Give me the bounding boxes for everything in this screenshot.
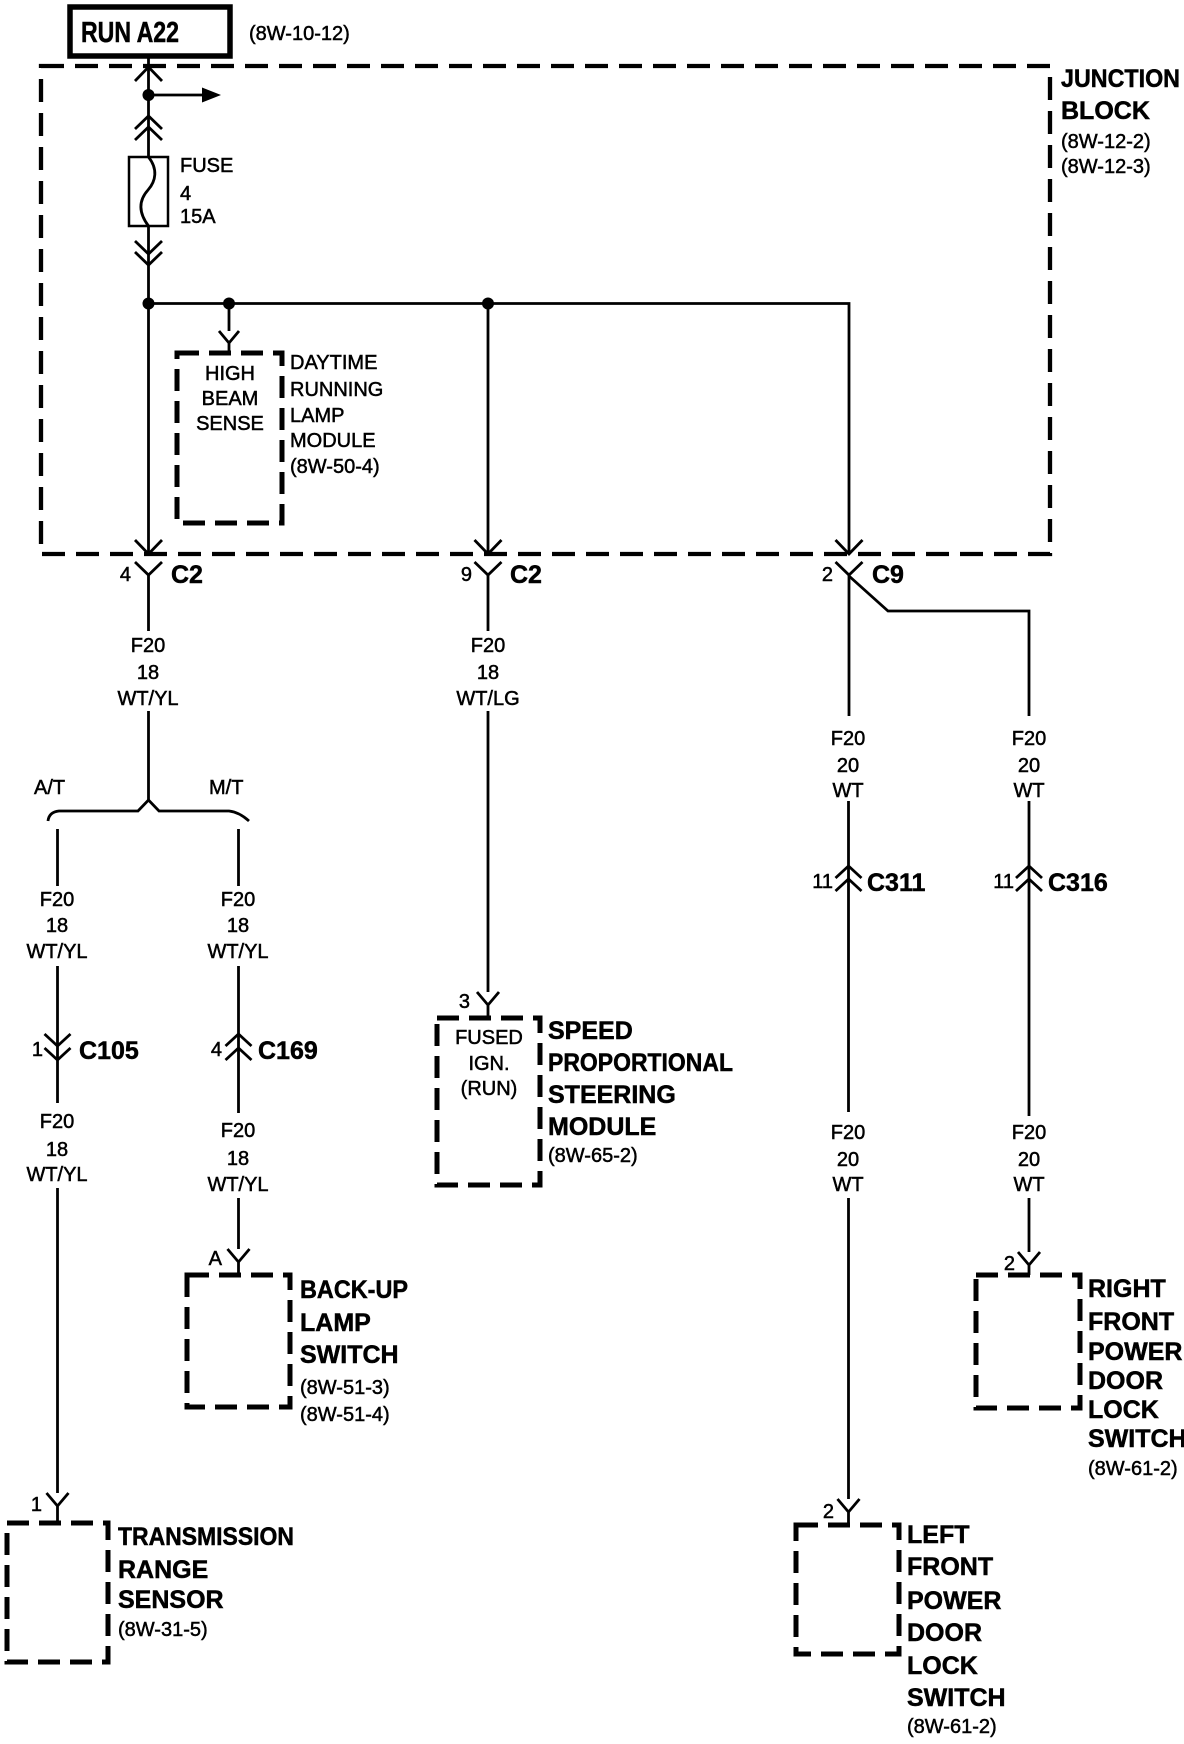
svg-text:WT: WT — [1013, 1174, 1044, 1196]
svg-text:SENSE: SENSE — [196, 413, 264, 435]
connector C2 pin 9 arrow and fork — [475, 540, 502, 554]
svg-text:PROPORTIONAL: PROPORTIONAL — [548, 1049, 733, 1077]
svg-text:18: 18 — [137, 662, 159, 684]
svg-text:(8W-61-2): (8W-61-2) — [907, 1716, 997, 1738]
svg-text:FUSE: FUSE — [180, 155, 233, 177]
switch RIGHT FRONT POWER DOOR LOCK SWITCH dashed box — [976, 1275, 1080, 1408]
svg-text:WT: WT — [832, 1174, 863, 1196]
svg-text:BEAM: BEAM — [202, 388, 259, 410]
wire brace split A/T M/T — [48, 800, 249, 821]
svg-text:(8W-61-2): (8W-61-2) — [1088, 1458, 1178, 1480]
svg-text:(8W-51-4): (8W-51-4) — [300, 1404, 390, 1426]
svg-text:POWER: POWER — [1088, 1338, 1182, 1366]
svg-text:20: 20 — [837, 755, 859, 777]
svg-text:FRONT: FRONT — [907, 1553, 993, 1581]
wire tap down to high beam sense — [228, 304, 231, 332]
connector RUN A22 feed box — [70, 7, 230, 56]
svg-text:BACK-UP: BACK-UP — [300, 1276, 408, 1304]
svg-text:2: 2 — [822, 564, 833, 586]
wire C2 pin4 to label — [147, 575, 150, 631]
svg-text:F20: F20 — [471, 635, 505, 657]
connector fork pin 1 into transmission range sensor — [47, 1493, 69, 1523]
svg-text:9: 9 — [461, 564, 472, 586]
wire bus down to C2 pin 4 — [147, 304, 150, 554]
svg-text:(RUN): (RUN) — [461, 1078, 518, 1100]
svg-text:HIGH: HIGH — [205, 363, 255, 385]
svg-text:SENSOR: SENSOR — [118, 1586, 224, 1614]
svg-text:LOCK: LOCK — [907, 1652, 978, 1680]
svg-text:18: 18 — [477, 662, 499, 684]
svg-text:BLOCK: BLOCK — [1061, 97, 1150, 125]
node dot at high beam sense tap — [223, 298, 235, 310]
svg-text:(8W-31-5): (8W-31-5) — [118, 1619, 208, 1641]
svg-text:JUNCTION: JUNCTION — [1061, 65, 1180, 93]
svg-text:SWITCH: SWITCH — [300, 1341, 399, 1369]
svg-text:WT/YL: WT/YL — [26, 1164, 87, 1186]
svg-text:(8W-12-2): (8W-12-2) — [1061, 131, 1151, 153]
connector fork pin A into back-up lamp switch — [228, 1249, 250, 1275]
sensor TRANSMISSION RANGE SENSOR dashed box — [7, 1523, 108, 1662]
svg-text:MODULE: MODULE — [290, 430, 376, 452]
svg-text:STEERING: STEERING — [548, 1081, 676, 1109]
switch LEFT FRONT POWER DOOR LOCK SWITCH dashed box — [796, 1525, 899, 1654]
svg-text:LAMP: LAMP — [300, 1309, 371, 1337]
svg-text:C311: C311 — [867, 869, 925, 897]
svg-text:F20: F20 — [131, 635, 165, 657]
svg-text:4: 4 — [120, 564, 131, 586]
node dot at fuse wire and bus — [143, 298, 155, 310]
svg-text:TRANSMISSION: TRANSMISSION — [118, 1523, 294, 1551]
svg-text:RUN A22: RUN A22 — [81, 17, 179, 49]
svg-text:C316: C316 — [1048, 869, 1108, 897]
connector C311 double chevron — [836, 866, 862, 891]
svg-text:F20: F20 — [221, 1120, 255, 1142]
connector fork pin 2 into right door lock switch — [1018, 1252, 1040, 1275]
svg-text:(8W-10-12): (8W-10-12) — [249, 23, 350, 45]
connector C105 double chevron — [45, 1034, 71, 1060]
junction block dashed border — [41, 66, 1050, 554]
wire dot to fuse — [147, 95, 150, 157]
connector fork into high beam sense — [219, 331, 239, 353]
svg-text:2: 2 — [1004, 1253, 1015, 1275]
connector C169 double chevron — [226, 1034, 252, 1060]
svg-text:IGN.: IGN. — [468, 1053, 509, 1075]
connector fork pin 2 into left door lock switch — [838, 1499, 860, 1525]
wire label to speed proportional steering module — [487, 711, 490, 992]
svg-text:15A: 15A — [180, 206, 216, 228]
svg-text:WT/YL: WT/YL — [26, 941, 87, 963]
svg-text:C9: C9 — [872, 561, 904, 589]
svg-text:F20: F20 — [40, 889, 74, 911]
svg-text:DAYTIME: DAYTIME — [290, 352, 377, 374]
svg-text:WT/YL: WT/YL — [207, 1174, 268, 1196]
node junction dot top — [143, 89, 155, 101]
svg-text:1: 1 — [31, 1494, 42, 1516]
svg-text:C2: C2 — [171, 561, 203, 589]
svg-text:WT/YL: WT/YL — [117, 688, 178, 710]
wire A/T branch upper — [56, 829, 59, 886]
wire bus horizontal with corner down to C9 — [149, 304, 850, 555]
svg-text:WT/LG: WT/LG — [456, 688, 519, 710]
wire A/T label to C105 — [56, 966, 59, 1103]
connector double chevron below fuse — [135, 241, 162, 265]
svg-text:1: 1 — [32, 1039, 43, 1061]
wire second label to door lock switch left — [847, 1198, 850, 1499]
svg-text:DOOR: DOOR — [907, 1619, 982, 1647]
svg-text:C169: C169 — [258, 1037, 318, 1065]
svg-text:4: 4 — [180, 183, 191, 205]
svg-text:18: 18 — [227, 1148, 249, 1170]
connector fork pin 3 into steering module — [477, 992, 499, 1018]
wire label to transmission range sensor — [56, 1188, 59, 1493]
svg-text:A: A — [209, 1248, 223, 1270]
svg-text:SWITCH: SWITCH — [907, 1684, 1006, 1712]
wire C9 to F20 label left — [848, 575, 851, 716]
svg-text:F20: F20 — [831, 1122, 865, 1144]
connector double chevron above fuse — [135, 116, 162, 140]
svg-text:F20: F20 — [1012, 1122, 1046, 1144]
svg-text:(8W-50-4): (8W-50-4) — [290, 456, 380, 478]
svg-text:A/T: A/T — [34, 777, 65, 799]
wire M/T branch upper — [237, 829, 240, 886]
svg-text:SWITCH: SWITCH — [1088, 1425, 1184, 1453]
wire C2 pin9 to label — [487, 575, 490, 631]
connector C9 pin 2 arrow and fork — [836, 540, 863, 554]
wire bus tap down to C2 pin 9 — [487, 304, 490, 554]
svg-text:2: 2 — [823, 1501, 834, 1523]
svg-text:(8W-65-2): (8W-65-2) — [548, 1145, 638, 1167]
svg-text:18: 18 — [46, 1139, 68, 1161]
svg-text:RIGHT: RIGHT — [1088, 1275, 1166, 1303]
svg-text:C105: C105 — [79, 1037, 139, 1065]
svg-text:F20: F20 — [1012, 728, 1046, 750]
svg-text:20: 20 — [1018, 755, 1040, 777]
wire right label to C316 — [1028, 801, 1031, 1116]
svg-text:20: 20 — [1018, 1149, 1040, 1171]
svg-text:LAMP: LAMP — [290, 405, 344, 427]
svg-text:WT/YL: WT/YL — [207, 941, 268, 963]
svg-text:MODULE: MODULE — [548, 1113, 656, 1141]
module HIGH BEAM SENSE dashed box — [177, 353, 282, 523]
svg-text:18: 18 — [227, 915, 249, 937]
svg-text:F20: F20 — [221, 889, 255, 911]
wire label to back-up lamp switch — [237, 1198, 240, 1249]
wire second label to door lock switch right — [1028, 1198, 1031, 1252]
svg-text:RANGE: RANGE — [118, 1556, 208, 1584]
wire label to AT MT brace — [147, 711, 150, 800]
svg-text:M/T: M/T — [209, 777, 243, 799]
svg-text:F20: F20 — [831, 728, 865, 750]
module FUSED IGN RUN dashed box — [437, 1018, 540, 1185]
svg-text:11: 11 — [812, 871, 833, 893]
svg-text:SPEED: SPEED — [548, 1017, 633, 1045]
wire fuse to bus — [147, 226, 150, 304]
switch BACK-UP LAMP SWITCH dashed box — [187, 1275, 290, 1407]
svg-text:20: 20 — [837, 1149, 859, 1171]
svg-text:FRONT: FRONT — [1088, 1308, 1174, 1336]
wire M/T label to C169 — [237, 966, 240, 1113]
svg-text:RUNNING: RUNNING — [290, 379, 383, 401]
svg-text:(8W-51-3): (8W-51-3) — [300, 1377, 390, 1399]
svg-text:18: 18 — [46, 915, 68, 937]
svg-text:3: 3 — [459, 991, 470, 1013]
connector C316 double chevron — [1016, 866, 1042, 891]
svg-text:C2: C2 — [510, 561, 542, 589]
svg-text:11: 11 — [993, 871, 1014, 893]
svg-text:4: 4 — [211, 1039, 222, 1061]
svg-text:(8W-12-3): (8W-12-3) — [1061, 156, 1151, 178]
svg-text:WT: WT — [832, 780, 863, 802]
wire RUN A22 to junction dot — [147, 56, 150, 95]
wire left label to C311 — [847, 801, 850, 1112]
svg-text:LEFT: LEFT — [907, 1521, 970, 1549]
svg-text:DOOR: DOOR — [1088, 1367, 1163, 1395]
svg-text:F20: F20 — [40, 1111, 74, 1133]
connector chevron at junction block top — [135, 67, 162, 81]
wire C9 diagonal branch to right — [849, 576, 1029, 716]
svg-text:FUSED: FUSED — [455, 1027, 523, 1049]
wire arrow to right from top dot — [149, 94, 204, 97]
svg-text:POWER: POWER — [907, 1587, 1001, 1615]
svg-text:LOCK: LOCK — [1088, 1396, 1159, 1424]
svg-text:WT: WT — [1013, 780, 1044, 802]
fuse 4 15A body — [129, 157, 168, 226]
connector C2 pin 4 arrow and fork — [135, 540, 162, 554]
node dot at C2 pin 9 tap — [482, 298, 494, 310]
